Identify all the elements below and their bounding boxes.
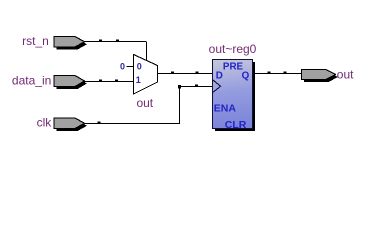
input port rst_n shadow	[57, 39, 88, 50]
fanout tick	[116, 40, 119, 42]
svg-text:D: D	[216, 70, 223, 81]
fanout tick	[195, 72, 198, 74]
fanout tick	[99, 80, 102, 82]
junction dot	[178, 85, 181, 88]
svg-text:data_in: data_in	[12, 73, 51, 87]
input port clk	[54, 118, 85, 129]
input port data_in	[54, 76, 85, 87]
wire mux output to D	[158, 73, 213, 75]
wire data_in to mux input 1	[85, 81, 135, 83]
svg-text:clk: clk	[37, 116, 53, 130]
fanout tick	[115, 80, 118, 82]
fanout tick	[195, 85, 198, 87]
output port out shadow	[304, 72, 338, 82]
mux out body	[134, 55, 158, 95]
svg-text:1: 1	[136, 75, 141, 85]
svg-text:CLR: CLR	[225, 119, 247, 131]
clock wedge	[213, 80, 221, 92]
svg-text:rst_n: rst_n	[22, 34, 49, 48]
fanout tick	[268, 72, 271, 74]
svg-text:PRE: PRE	[223, 61, 244, 72]
wire clk to flipflop clock	[85, 87, 213, 124]
svg-text:out: out	[337, 68, 354, 82]
input port clk shadow	[57, 121, 88, 132]
fanout tick	[171, 72, 174, 74]
input port data_in shadow	[57, 78, 88, 89]
wire rst_n to mux select	[85, 42, 147, 62]
wire Q to out port	[253, 73, 302, 75]
svg-text:out~reg0: out~reg0	[209, 42, 257, 56]
svg-text:Q: Q	[242, 70, 250, 81]
output port out	[302, 70, 336, 80]
flipflop out~reg0 shadow	[215, 62, 255, 131]
fanout tick	[99, 40, 102, 42]
svg-text:out: out	[136, 96, 153, 110]
fanout tick	[98, 122, 101, 124]
constant tie wire	[127, 66, 135, 68]
svg-text:0: 0	[120, 61, 125, 71]
svg-text:ENA: ENA	[214, 102, 237, 114]
flipflop out~reg0 body	[213, 60, 253, 129]
fanout tick	[284, 72, 287, 74]
svg-text:0: 0	[137, 61, 142, 71]
input port rst_n	[54, 37, 85, 48]
